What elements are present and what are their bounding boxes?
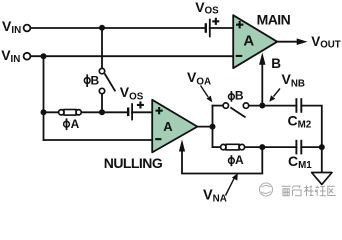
svg-text:B: B [235,88,244,102]
nulling op-amp minus marker [155,138,161,140]
wire to phiA out switch [213,146,221,148]
label phiA output switch [229,155,235,166]
wire nulling output [197,126,212,128]
node CM1 / ground vertical [319,144,325,150]
svg-text:B: B [271,56,281,71]
label phiB input switch [84,74,90,87]
arrow B feedback into main amp [259,53,265,65]
terminal VIN- circle [24,53,31,60]
svg-text:A: A [163,119,173,134]
wire phiA switch to junction [81,111,128,113]
svg-text:A: A [235,153,244,167]
wire phiB out switch to CM2 [249,105,297,107]
wire main output [277,41,298,43]
main op-amp plus marker [236,21,243,29]
wire nulling + input: node to phiA switch [44,111,59,113]
svg-text:A: A [71,117,80,131]
main op-amp U1 triangle [233,15,277,68]
wire to phiB out switch [213,105,224,107]
capacitor CM1 plates [296,140,301,155]
nulling op-amp plus marker [156,107,163,114]
label plus of nulling battery [137,101,144,108]
node top rail / phiB branch [99,25,105,31]
main op-amp battery VOS plates [206,19,210,38]
main op-amp minus marker [236,55,243,57]
node VIN- rail / left branch [41,53,47,59]
watermark logo [260,183,273,196]
annotation arrow VNB [274,89,281,97]
svg-text:B: B [91,74,100,88]
node VNA / CM1 junction [259,144,265,150]
label phiB output switch [229,91,235,102]
watermark text [282,186,336,197]
switch phiB output: circles and open blade [223,103,249,108]
svg-text:MAIN: MAIN [257,11,291,27]
wire nulling - input [44,139,153,141]
wire B feedback vertical [261,64,263,106]
label phiA input switch [64,118,70,130]
node left vertical / phiA branch [41,109,47,115]
wire VNA feedback path [182,147,262,173]
svg-text:NULLING: NULLING [104,155,163,171]
wire main battery to main amp [210,27,234,29]
ground [312,173,332,185]
nulling battery VOS plates [128,103,132,120]
arrow main output to VOUT [297,38,308,45]
annotation arrow VOA [201,86,209,98]
wire nulling output vertical [212,106,214,148]
annotation arrow VNA [226,179,235,196]
switch phiA input: circles and closed box [59,110,82,116]
wire vertical from VIN+ to phiB input switch [101,28,103,69]
svg-text:A: A [243,32,254,49]
wire CM1 right plate to vertical [301,146,322,148]
wire VIN- rail [31,55,234,57]
wire CM2 to right vertical [301,106,322,172]
wire phiA out switch to CM1 [245,146,297,148]
capacitor CM2 plates [296,98,301,113]
node B / CM2 junction [259,103,265,109]
wire left vertical from VIN- down [43,56,45,140]
switch phiA output: circles and closed box [221,144,245,150]
node nulling + input junction [99,109,105,115]
terminal VIN+ circle [24,25,31,32]
switch phiB input: circles and open blade [99,68,104,93]
label plus of main battery [212,18,219,25]
wire VIN+ top rail [31,27,206,29]
wire nulling battery to amp [132,111,152,113]
node nulling output [210,124,216,130]
wire phiB input switch to nulling + node [101,94,103,113]
arrow VNA feedback into nulling amp [179,139,185,151]
nulling op-amp U2 triangle [152,100,197,153]
